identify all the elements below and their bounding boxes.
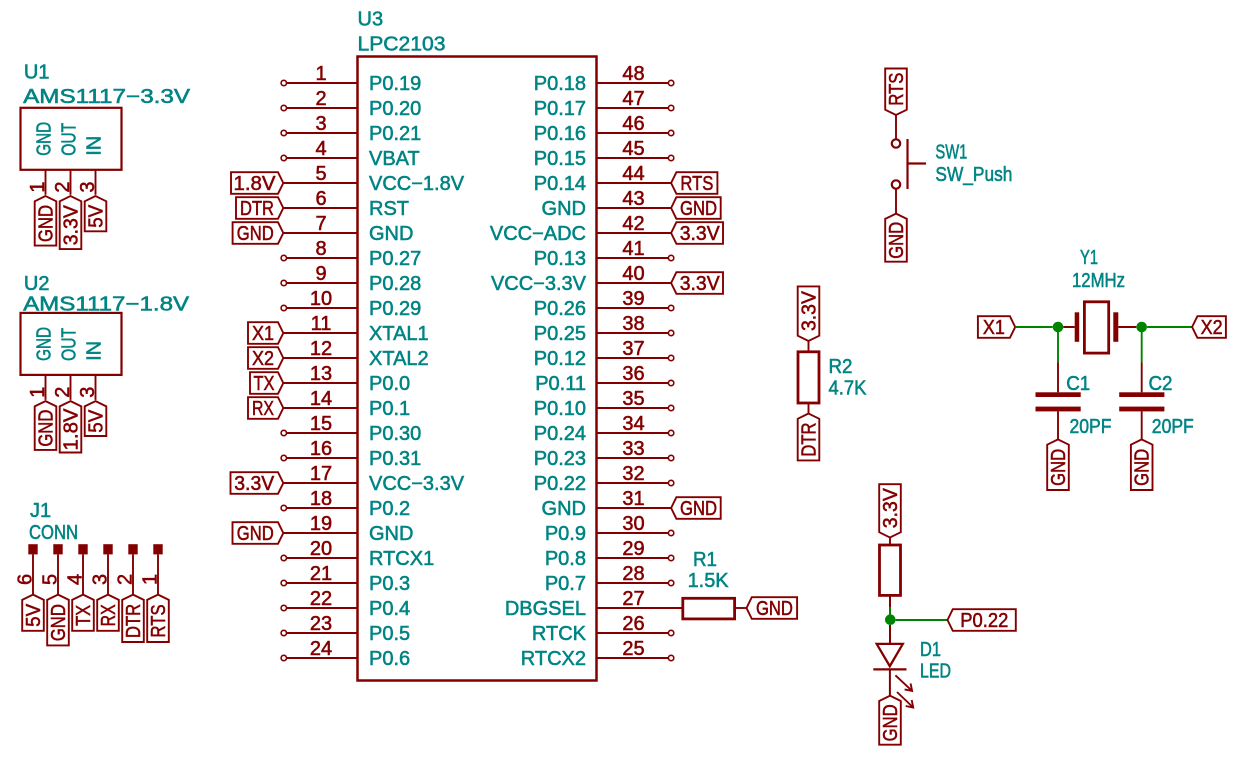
svg-text:AMS1117−3.3V: AMS1117−3.3V — [23, 86, 191, 108]
svg-text:41: 41 — [622, 238, 644, 260]
svg-text:GND: GND — [542, 198, 586, 220]
svg-text:P0.18: P0.18 — [534, 73, 586, 95]
svg-text:13: 13 — [310, 363, 332, 385]
svg-text:P0.24: P0.24 — [534, 423, 586, 445]
svg-text:47: 47 — [622, 88, 644, 110]
svg-text:X1: X1 — [252, 323, 274, 345]
svg-text:RX: RX — [252, 398, 274, 420]
svg-text:37: 37 — [622, 338, 644, 360]
svg-text:32: 32 — [622, 463, 644, 485]
svg-text:4: 4 — [315, 138, 326, 160]
svg-text:DTR: DTR — [799, 423, 821, 457]
svg-text:3.3V: 3.3V — [61, 205, 83, 246]
svg-text:2: 2 — [52, 181, 74, 192]
svg-text:3: 3 — [77, 387, 99, 398]
svg-text:34: 34 — [622, 413, 644, 435]
svg-text:RTCX1: RTCX1 — [369, 548, 434, 570]
svg-text:P0.11: P0.11 — [535, 373, 586, 395]
svg-text:5: 5 — [315, 163, 326, 185]
svg-text:38: 38 — [622, 313, 644, 335]
svg-text:P0.17: P0.17 — [534, 98, 586, 120]
svg-text:SW_Push: SW_Push — [935, 164, 1012, 186]
svg-text:3: 3 — [90, 574, 112, 585]
svg-text:OUT: OUT — [58, 328, 80, 361]
svg-text:1: 1 — [315, 63, 326, 85]
svg-text:33: 33 — [622, 438, 644, 460]
svg-text:P0.12: P0.12 — [534, 348, 586, 370]
svg-text:3.3V: 3.3V — [680, 223, 721, 245]
svg-text:RTS: RTS — [148, 604, 170, 637]
svg-text:RST: RST — [369, 198, 409, 220]
svg-text:1: 1 — [27, 181, 49, 192]
svg-text:LED: LED — [920, 661, 951, 683]
svg-text:RTS: RTS — [680, 173, 713, 195]
svg-text:P0.22: P0.22 — [534, 473, 586, 495]
svg-text:RX: RX — [98, 604, 120, 626]
svg-text:DTR: DTR — [123, 604, 145, 638]
svg-text:RTCK: RTCK — [532, 623, 587, 645]
svg-text:6: 6 — [315, 188, 326, 210]
svg-text:U2: U2 — [24, 273, 50, 295]
svg-text:VCC−ADC: VCC−ADC — [490, 223, 586, 245]
svg-text:8: 8 — [315, 238, 326, 260]
svg-text:SW1: SW1 — [935, 142, 967, 164]
svg-text:P0.6: P0.6 — [369, 648, 410, 670]
svg-text:RTS: RTS — [886, 73, 908, 106]
svg-text:C1: C1 — [1066, 373, 1090, 395]
svg-text:5V: 5V — [23, 603, 45, 627]
svg-text:3: 3 — [315, 113, 326, 135]
svg-text:2: 2 — [52, 387, 74, 398]
svg-text:GND: GND — [880, 704, 902, 741]
svg-text:P0.9: P0.9 — [545, 523, 586, 545]
svg-text:9: 9 — [315, 263, 326, 285]
svg-text:P0.25: P0.25 — [534, 323, 586, 345]
svg-text:TX: TX — [254, 373, 275, 395]
svg-text:GND: GND — [680, 498, 717, 520]
svg-text:5V: 5V — [86, 409, 108, 433]
svg-text:P0.4: P0.4 — [369, 598, 410, 620]
svg-text:U3: U3 — [358, 9, 384, 31]
svg-text:GND: GND — [237, 523, 274, 545]
svg-text:P0.3: P0.3 — [369, 573, 410, 595]
svg-text:27: 27 — [622, 588, 644, 610]
svg-text:36: 36 — [622, 363, 644, 385]
svg-text:6: 6 — [15, 574, 37, 585]
svg-text:D1: D1 — [920, 639, 941, 661]
svg-text:U1: U1 — [24, 62, 50, 84]
svg-text:35: 35 — [622, 388, 644, 410]
svg-text:XTAL1: XTAL1 — [369, 323, 429, 345]
svg-text:16: 16 — [310, 438, 332, 460]
svg-text:30: 30 — [622, 513, 644, 535]
svg-text:5V: 5V — [86, 204, 108, 228]
svg-text:P0.20: P0.20 — [369, 98, 421, 120]
svg-text:P0.14: P0.14 — [534, 173, 586, 195]
svg-text:XTAL2: XTAL2 — [369, 348, 429, 370]
svg-text:3: 3 — [77, 181, 99, 192]
svg-text:GND: GND — [369, 523, 413, 545]
svg-text:X1: X1 — [983, 317, 1005, 339]
svg-text:39: 39 — [622, 288, 644, 310]
svg-text:22: 22 — [310, 588, 332, 610]
svg-text:GND: GND — [369, 223, 413, 245]
svg-text:40: 40 — [622, 263, 644, 285]
svg-text:46: 46 — [622, 113, 644, 135]
svg-text:4: 4 — [65, 574, 87, 585]
svg-text:P0.29: P0.29 — [369, 298, 421, 320]
svg-text:VCC−3.3V: VCC−3.3V — [491, 273, 587, 295]
svg-text:12: 12 — [310, 338, 332, 360]
svg-text:3.3V: 3.3V — [799, 290, 821, 331]
svg-text:45: 45 — [622, 138, 644, 160]
svg-text:14: 14 — [310, 388, 332, 410]
svg-text:20: 20 — [310, 538, 332, 560]
svg-text:P0.22: P0.22 — [960, 610, 1008, 632]
svg-text:1.5K: 1.5K — [688, 570, 730, 592]
svg-text:48: 48 — [622, 63, 644, 85]
svg-text:15: 15 — [310, 413, 332, 435]
svg-text:X2: X2 — [252, 348, 274, 370]
svg-text:1: 1 — [140, 574, 162, 585]
svg-text:TX: TX — [73, 605, 95, 626]
svg-text:GND: GND — [36, 410, 58, 447]
svg-text:18: 18 — [310, 488, 332, 510]
svg-text:GND: GND — [36, 205, 58, 242]
svg-text:43: 43 — [622, 188, 644, 210]
svg-text:24: 24 — [310, 638, 332, 660]
svg-text:Y1: Y1 — [1080, 247, 1098, 269]
svg-text:11: 11 — [311, 313, 332, 335]
svg-text:P0.1: P0.1 — [369, 398, 410, 420]
svg-text:3.3V: 3.3V — [880, 488, 902, 529]
svg-text:X2: X2 — [1201, 317, 1223, 339]
svg-text:1.8V: 1.8V — [61, 408, 83, 451]
svg-text:P0.26: P0.26 — [534, 298, 586, 320]
svg-text:RTCX2: RTCX2 — [521, 648, 586, 670]
svg-text:C2: C2 — [1149, 373, 1173, 395]
svg-text:31: 31 — [622, 488, 644, 510]
svg-text:P0.21: P0.21 — [369, 123, 421, 145]
svg-text:R2: R2 — [829, 356, 853, 378]
svg-text:7: 7 — [315, 213, 326, 235]
svg-text:2: 2 — [115, 574, 137, 585]
svg-text:P0.0: P0.0 — [369, 373, 410, 395]
svg-text:DBGSEL: DBGSEL — [505, 598, 586, 620]
svg-text:GND: GND — [33, 327, 55, 361]
svg-text:20PF: 20PF — [1070, 416, 1112, 438]
svg-text:VCC−1.8V: VCC−1.8V — [369, 173, 465, 195]
svg-text:GND: GND — [886, 222, 908, 259]
svg-text:P0.10: P0.10 — [534, 398, 586, 420]
svg-text:44: 44 — [622, 163, 644, 185]
svg-text:CONN: CONN — [29, 522, 78, 544]
svg-text:12MHz: 12MHz — [1072, 270, 1125, 292]
svg-text:P0.13: P0.13 — [534, 248, 586, 270]
svg-text:DTR: DTR — [240, 198, 274, 220]
svg-text:GND: GND — [756, 598, 793, 620]
svg-text:4.7K: 4.7K — [829, 378, 868, 400]
svg-text:GND: GND — [237, 223, 274, 245]
svg-text:VCC−3.3V: VCC−3.3V — [369, 473, 465, 495]
svg-text:29: 29 — [622, 538, 644, 560]
svg-text:1.8V: 1.8V — [234, 173, 277, 195]
svg-text:5: 5 — [40, 574, 62, 585]
svg-text:P0.8: P0.8 — [545, 548, 586, 570]
svg-text:P0.2: P0.2 — [369, 498, 410, 520]
svg-text:2: 2 — [315, 88, 326, 110]
svg-text:P0.31: P0.31 — [369, 448, 421, 470]
svg-text:19: 19 — [310, 513, 332, 535]
svg-text:P0.23: P0.23 — [534, 448, 586, 470]
svg-text:P0.16: P0.16 — [534, 123, 586, 145]
svg-text:25: 25 — [622, 638, 644, 660]
svg-text:R1: R1 — [693, 549, 717, 571]
svg-text:OUT: OUT — [58, 123, 80, 156]
svg-text:P0.5: P0.5 — [369, 623, 410, 645]
svg-text:28: 28 — [622, 563, 644, 585]
svg-text:1: 1 — [27, 387, 49, 398]
svg-text:21: 21 — [310, 563, 332, 585]
svg-text:17: 17 — [310, 463, 332, 485]
svg-text:P0.30: P0.30 — [369, 423, 421, 445]
svg-text:P0.15: P0.15 — [534, 148, 586, 170]
svg-text:GND: GND — [48, 604, 70, 641]
svg-text:20PF: 20PF — [1152, 416, 1194, 438]
svg-text:IN: IN — [83, 136, 105, 156]
svg-text:LPC2103: LPC2103 — [358, 34, 446, 56]
svg-text:3.3V: 3.3V — [680, 273, 721, 295]
svg-text:10: 10 — [310, 288, 332, 310]
svg-text:GND: GND — [33, 122, 55, 156]
svg-text:P0.7: P0.7 — [545, 573, 586, 595]
svg-text:P0.28: P0.28 — [369, 273, 421, 295]
svg-text:GND: GND — [1048, 449, 1070, 486]
svg-text:J1: J1 — [30, 500, 51, 522]
svg-text:P0.27: P0.27 — [369, 248, 421, 270]
svg-text:P0.19: P0.19 — [369, 73, 421, 95]
svg-text:3.3V: 3.3V — [234, 473, 275, 495]
svg-text:26: 26 — [622, 613, 644, 635]
svg-text:23: 23 — [310, 613, 332, 635]
svg-text:IN: IN — [83, 341, 105, 361]
svg-text:42: 42 — [622, 213, 644, 235]
svg-text:GND: GND — [1132, 449, 1154, 486]
svg-text:GND: GND — [542, 498, 586, 520]
svg-text:GND: GND — [680, 198, 717, 220]
svg-text:VBAT: VBAT — [369, 148, 420, 170]
